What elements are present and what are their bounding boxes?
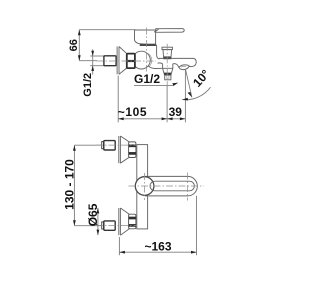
svg-text:~163: ~163 [144,239,171,253]
svg-text:Ø65: Ø65 [86,203,100,226]
svg-text:G1/2: G1/2 [82,73,94,97]
svg-text:39: 39 [169,105,183,119]
svg-text:G1/2: G1/2 [134,72,160,86]
svg-text:~105: ~105 [118,105,147,119]
svg-text:66: 66 [68,39,80,51]
svg-text:130 - 170: 130 - 170 [62,159,76,210]
